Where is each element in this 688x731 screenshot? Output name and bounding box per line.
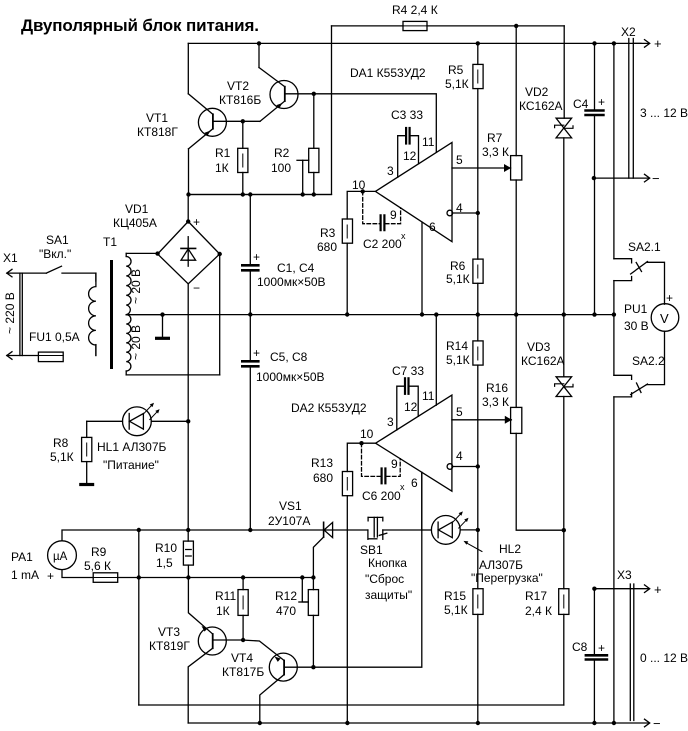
svg-text:КТ819Г: КТ819Г [149,639,190,653]
wire top +V bus [188,41,641,45]
svg-text:R8: R8 [53,436,69,450]
svg-text:1000мк×50В: 1000мк×50В [257,275,326,289]
svg-text:PU1: PU1 [624,302,648,316]
svg-text:1,5: 1,5 [156,556,173,570]
svg-text:КТ817Б: КТ817Б [222,665,264,679]
svg-text:R13: R13 [311,456,333,470]
wire +bus y194 [189,192,332,196]
transformer T1 secondary winding 1 [126,253,131,314]
capacitor C6 label [362,482,405,503]
svg-text:защиты": защиты" [365,588,412,602]
svg-text:VT4: VT4 [231,651,253,665]
svg-text:VD2: VD2 [525,85,549,99]
svg-text:470: 470 [276,604,296,618]
svg-text:DA2 К553УД2: DA2 К553УД2 [291,401,367,415]
node bridge plus label [193,215,200,229]
svg-text:~ 20 В: ~ 20 В [129,269,143,304]
svg-text:2У107А: 2У107А [268,514,310,528]
LED HL2 label with leader arrow [464,541,483,552]
svg-text:PA1: PA1 [11,550,33,564]
resistor R4 label [392,3,438,17]
LED HL2 [431,511,468,544]
wire R9 line right [139,575,316,579]
capacitor C1 C4 [242,195,258,317]
transistor VT1 label [137,111,178,139]
op-amp DA1 pin numbers [352,135,463,234]
svg-text:~ 20 В: ~ 20 В [129,325,143,360]
connector X3 [592,584,650,727]
svg-text:T1: T1 [103,235,117,249]
ground at transformer center tap [157,312,169,338]
svg-text:3 ... 12 В: 3 ... 12 В [640,106,688,120]
svg-text:R12: R12 [275,589,297,603]
svg-text:+: + [193,215,200,229]
resistor R10 [183,541,193,565]
svg-text:VT1: VT1 [146,111,168,125]
svg-text:11: 11 [422,389,435,403]
wire DA1 pin 10 to R3 [347,189,375,219]
op-amp DA2 [376,395,452,491]
svg-text:C3 33: C3 33 [391,108,423,122]
svg-text:+: + [253,250,260,264]
wire R9 to PA rail [118,575,141,579]
svg-text:5,1К: 5,1К [444,603,468,617]
transistor VT3 [188,578,242,724]
svg-text:R9: R9 [91,545,107,559]
svg-text:R3: R3 [320,226,336,240]
svg-text:КЦ405А: КЦ405А [113,216,157,230]
capacitor C7 label [392,364,424,378]
svg-text:АЛ307Б: АЛ307Б [479,558,523,572]
svg-text:µА: µА [53,551,68,563]
op-amp DA2 pin numbers [360,389,463,490]
svg-text:+: + [47,569,54,583]
svg-text:−: − [653,716,661,731]
resistor R13 label [311,456,333,485]
capacitor C8 [586,589,607,723]
resistor R10 label [155,541,177,570]
fuse FU1 label [29,330,80,344]
wire minus rail to R10 [186,421,190,541]
resistor R12 label [275,589,297,618]
pushbutton SB1 [368,517,422,539]
wire 0V bus [126,312,616,316]
potentiometer R7 label [482,131,509,159]
net ~20V label upper [129,269,143,304]
op-amp DA2 label [291,401,367,415]
svg-text:5,1К: 5,1К [445,77,469,91]
wire SA2 rail bottom [613,397,615,723]
svg-text:9: 9 [391,457,398,471]
svg-text:+: + [654,582,662,597]
potentiometer R7 [511,26,522,315]
svg-text:X2: X2 [621,25,636,39]
svg-text:C6 200: C6 200 [362,489,401,503]
op-amp DA2 pin 11 [435,315,437,406]
svg-text:Двуполярный блок питания.: Двуполярный блок питания. [21,16,259,35]
wire secondary bottom lead [126,374,220,376]
svg-text:"Сброс: "Сброс [365,572,404,586]
resistor R2 [297,94,319,197]
capacitor C5 C8 label [253,346,325,384]
switch SA2.1 label [628,240,661,254]
svg-text:10: 10 [360,427,374,441]
zener VD2 [555,26,573,315]
resistor R4 [332,21,565,30]
resistor R9 [93,573,118,583]
svg-text:30 В: 30 В [624,319,649,333]
svg-text:0 ... 12 В: 0 ... 12 В [640,651,688,665]
capacitor C3 [398,128,419,177]
wire HL1 right to minus rail [151,420,188,422]
zener VD2 label [519,85,563,113]
LED HL2 label text [471,542,543,585]
meter PA1 [48,541,77,570]
wire 530 line left part [139,528,368,532]
svg-text:2,4 К: 2,4 К [525,604,552,618]
resistor R11 [238,578,248,643]
resistor R8 label [50,436,74,464]
wire bridge right corner down [219,254,221,375]
thyristor VS1 [313,522,332,577]
resistor R15 label [444,589,468,617]
connector X2 labels [621,25,688,186]
svg-text:3: 3 [387,415,394,429]
resistor R14 [473,315,483,467]
svg-text:1 mА: 1 mА [11,568,39,582]
svg-text:"Перегрузка": "Перегрузка" [471,571,543,585]
svg-text:−: − [193,281,200,295]
svg-text:V: V [660,311,669,326]
meter PA1 uA text [53,551,68,563]
transistor VT3 label [149,625,190,653]
svg-text:C5, C8: C5, C8 [270,350,308,364]
svg-text:R2: R2 [274,146,290,160]
svg-text:+: + [598,95,605,109]
transformer T1 secondary winding 2 [126,315,131,375]
svg-text:6: 6 [429,220,436,234]
svg-text:R15: R15 [444,589,466,603]
wire SA2 rail mid [613,281,615,376]
resistor R1 label [215,146,231,175]
capacitor C4 label [573,95,605,111]
capacitor C6 (selected, dashed) [362,443,401,484]
wire PA1 bottom to R9 [62,570,93,578]
svg-text:SA1: SA1 [46,233,69,247]
op-amp DA1 label [350,66,426,80]
wire SB1 to HL2 [422,529,432,531]
svg-text:680: 680 [313,471,333,485]
transistor VT4 [242,640,313,725]
transformer T1 primary winding [89,274,96,356]
potentiometer R16 label [482,381,509,409]
rectifier bridge VD1 [155,219,221,284]
svg-text:КС162А: КС162А [519,99,563,113]
switch SA2.1 [614,259,665,305]
LED HL1 label [97,440,167,472]
resistor R2 label [271,146,291,175]
op-amp DA2 pin 5 output [452,416,512,424]
wire bus705 [139,704,564,706]
wire PA rail down to bus705 [138,530,140,705]
capacitor C3 label [391,108,423,122]
svg-text:SA2.2: SA2.2 [632,354,665,368]
svg-text:КТ816Б: КТ816Б [219,93,261,107]
wire HL1 left to R8 [87,420,123,422]
connector X2 [592,39,650,182]
svg-text:x: x [400,482,405,492]
pushbutton SB1 label [360,543,412,602]
op-amp DA2 pin 4 [447,464,480,470]
rectifier VD1 label [113,202,157,230]
svg-text:5,1К: 5,1К [446,353,470,367]
svg-text:1000мк×50В: 1000мк×50В [256,370,325,384]
meter PA1 label [11,550,54,583]
capacitor C2 (selected, dashed) [363,191,401,230]
wire secondary top lead to bridge [126,252,157,254]
svg-text:5,6 К: 5,6 К [84,559,111,573]
svg-text:+: + [253,346,260,360]
svg-text:11: 11 [422,135,435,149]
wire primary right side [95,273,97,355]
svg-text:6: 6 [411,476,418,490]
svg-text:X1: X1 [3,251,18,265]
resistor R8 [82,421,92,461]
op-amp DA1 [375,142,452,241]
svg-text:R6: R6 [450,259,466,273]
svg-text:+: + [654,36,662,51]
svg-text:КС162А: КС162А [521,354,565,368]
resistor R12 [299,578,319,670]
svg-text:680: 680 [317,240,337,254]
svg-text:+: + [598,641,605,655]
svg-text:4: 4 [456,449,463,463]
capacitor C4 [586,43,604,314]
net ~220V label [3,292,17,334]
net ~20V label lower [129,325,143,360]
svg-text:R1: R1 [215,146,231,160]
svg-text:−: − [652,171,660,186]
svg-text:DA1 К553УД2: DA1 К553УД2 [350,66,426,80]
svg-text:R17: R17 [525,589,547,603]
op-amp DA1 pin 5 output [452,164,511,172]
svg-text:C2 200: C2 200 [363,237,402,251]
wire bridge plus up to +bus [187,195,189,222]
svg-text:~ 220 В: ~ 220 В [3,292,17,334]
svg-text:12: 12 [403,149,417,163]
svg-text:5: 5 [456,405,463,419]
wire VT1 emitter down to +bus [186,149,190,197]
wire bridge minus rail down [186,284,190,424]
resistor R17 [559,589,569,705]
node bridge minus label [193,281,200,295]
svg-text:3: 3 [387,164,394,178]
wire VT4 base line right [313,472,421,667]
svg-text:VS1: VS1 [279,499,302,513]
wire VT1 collector up [187,43,189,93]
switch SA2.2 [614,331,665,397]
fuse FU1 [38,352,63,362]
svg-text:3,3 К: 3,3 К [482,145,509,159]
svg-text:5,1К: 5,1К [446,272,470,286]
transformer T1 label [103,235,117,249]
svg-text:"Питание": "Питание" [103,458,159,472]
switch SA2.2 label [632,354,665,368]
resistor R14 label [446,339,470,367]
svg-text:HL1 АЛ307Б: HL1 АЛ307Б [97,440,167,454]
svg-text:VT3: VT3 [158,625,180,639]
capacitor C5 C8 [242,315,258,531]
capacitor C1 C4 label [253,250,326,289]
title [21,16,259,35]
svg-text:R14: R14 [446,339,468,353]
voltmeter PU1 [651,304,679,332]
svg-text:R5: R5 [448,63,464,77]
op-amp DA1 pin 4 [447,210,480,216]
svg-text:R4 2,4 К: R4 2,4 К [392,3,438,17]
resistor R3 [342,219,352,317]
resistor R5 label [445,63,469,91]
resistor R9 label [84,545,111,573]
svg-text:FU1 0,5А: FU1 0,5А [29,330,80,344]
svg-text:R11: R11 [215,589,236,603]
connector X1 [7,269,47,359]
wire feedback rail x331 [189,26,332,195]
wire VT2 collector up to top bus [257,41,261,67]
wire SA2 rail top [613,43,615,258]
transistor VT2 [259,68,332,122]
wire VT1 base junction [241,119,245,123]
transistor VT4 label [222,651,264,679]
capacitor C7 [397,378,418,430]
switch SA1 [46,266,96,273]
wire bus723 left [188,721,616,725]
resistor R3 label [317,226,337,254]
svg-text:X3: X3 [617,568,632,582]
resistor R11 label [215,589,236,618]
svg-text:"Вкл.": "Вкл." [39,247,71,261]
op-amp DA2 pin 6 down [421,472,423,530]
zener VD3 [555,315,573,589]
svg-text:1К: 1К [215,161,229,175]
wire PA1 top to 530 line [62,528,141,541]
ground below R8 [81,462,93,485]
resistor R1 [238,121,248,196]
wire DA2 pin 10 to R13 [347,441,375,472]
svg-text:VD3: VD3 [527,340,551,354]
svg-text:C7 33: C7 33 [392,364,424,378]
thyristor VS1 label [268,499,310,528]
switch SA1 label [39,233,71,261]
svg-text:12: 12 [404,400,418,414]
wire center tap to 0V bus [126,314,162,316]
resistor R13 [342,472,352,724]
resistor R5 [473,43,483,213]
transistor VT2 label [219,79,261,107]
svg-text:9: 9 [390,208,397,222]
capacitor C8 label [572,640,605,655]
resistor R17 label [525,589,552,618]
capacitor C2 label [363,231,406,251]
transistor VT1 [188,94,260,149]
svg-text:x: x [401,231,406,241]
resistor R15 [473,467,483,724]
svg-text:C4: C4 [573,97,589,111]
op-amp DA1 pin 6 to 0V [420,222,424,317]
svg-text:+: + [666,291,673,305]
wire HL2 right to R15 rail [460,528,480,532]
svg-text:КТ818Г: КТ818Г [137,125,178,139]
resistor R6 [473,213,483,315]
svg-text:R7: R7 [487,131,503,145]
svg-text:3,3 К: 3,3 К [482,395,509,409]
node X1 label [3,251,18,265]
svg-text:100: 100 [271,161,291,175]
wire R10 bottom to R9 line [186,565,190,580]
LED HL1 [122,403,159,436]
voltmeter PU1 labels [624,291,673,333]
svg-text:Кнопка: Кнопка [368,556,407,570]
svg-text:SA2.1: SA2.1 [628,240,661,254]
voltmeter PU1 V text [660,311,669,326]
svg-text:VD1: VD1 [125,202,149,216]
svg-text:VT2: VT2 [227,79,249,93]
svg-text:5: 5 [456,153,463,167]
potentiometer R16 [511,315,566,533]
zener VD3 label [521,340,565,368]
transformer T1 core [110,260,113,369]
svg-text:SB1: SB1 [360,543,383,557]
svg-text:C1, C4: C1, C4 [277,261,315,275]
svg-text:R10: R10 [155,541,177,555]
op-amp DA1 pin 11 [332,94,437,153]
resistor R6 label [446,259,470,286]
svg-text:C8: C8 [572,640,588,654]
svg-text:5,1К: 5,1К [50,450,74,464]
connector X3 labels [617,568,688,731]
svg-text:1К: 1К [216,604,230,618]
svg-text:HL2: HL2 [499,542,521,556]
svg-text:R16: R16 [486,381,508,395]
